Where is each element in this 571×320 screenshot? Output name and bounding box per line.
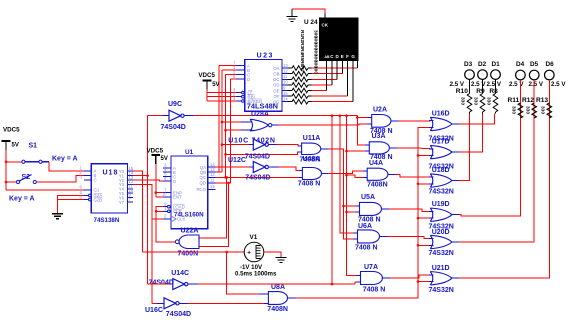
svg-text:U2A: U2A xyxy=(373,106,387,113)
label U7A xyxy=(364,264,378,271)
svg-text:U3A: U3A xyxy=(372,133,386,140)
value -1V 10V xyxy=(240,264,263,271)
svg-text:U18: U18 xyxy=(103,170,119,177)
wire U21D.in2 tap xyxy=(417,280,431,283)
OR gate U20D xyxy=(430,235,452,248)
display pin 3 lead xyxy=(336,61,338,80)
wire U14C out long xyxy=(198,283,356,286)
probe D6 xyxy=(545,70,555,80)
svg-text:D5: D5 xyxy=(530,61,539,68)
node tap2 xyxy=(345,211,348,214)
decoder U23 box xyxy=(245,60,282,112)
label R8 xyxy=(489,88,498,95)
label Key = A (S1) xyxy=(52,156,78,163)
value 74S32N (U21D) xyxy=(429,287,454,294)
wire U28A out to U2A.in2 xyxy=(278,123,372,126)
svg-text:7408 N: 7408 N xyxy=(363,287,386,294)
display pin 1 lead xyxy=(356,61,358,69)
resistor R8 xyxy=(493,79,498,113)
wire R6 to display xyxy=(312,95,348,97)
U21D output stub xyxy=(452,277,459,279)
resistor R10 xyxy=(467,79,472,113)
wire R9 lead red xyxy=(482,114,484,153)
U19D output stub xyxy=(452,214,459,216)
label D5 xyxy=(530,61,539,68)
probe D1 xyxy=(491,70,501,80)
svg-text:R11: R11 xyxy=(508,97,520,104)
wire V4 to LT/RBI/RBO xyxy=(207,90,242,102)
value 74S04D (U14C) xyxy=(149,280,174,287)
value 2.5 V (D1) xyxy=(487,81,502,88)
wire column A U23 xyxy=(219,66,237,173)
svg-text:330: 330 xyxy=(460,97,466,105)
value 7408N overlapped xyxy=(300,156,321,163)
svg-text:G: G xyxy=(351,54,355,59)
ground near U18 xyxy=(52,214,63,219)
value 330 rotated (R12) xyxy=(524,106,530,114)
svg-text:QC: QC xyxy=(200,175,206,180)
U16C output stub xyxy=(179,302,187,304)
node ENP tap xyxy=(155,191,158,194)
value 74S32N (U17D) xyxy=(429,164,454,171)
svg-text:VDC5: VDC5 xyxy=(147,148,164,155)
label S1 xyxy=(29,143,38,150)
wire U12C out to gate2.in1 xyxy=(278,167,302,171)
svg-text:C: C xyxy=(94,178,97,183)
node V1 junction xyxy=(225,251,228,254)
svg-text:14: 14 xyxy=(283,97,288,102)
svg-text:OG: OG xyxy=(273,100,280,105)
label U19D xyxy=(432,201,450,208)
svg-text:11: 11 xyxy=(210,178,215,183)
wire D5 to R12 xyxy=(533,80,535,118)
label U20D xyxy=(432,229,450,236)
svg-text:330: 330 xyxy=(486,97,492,105)
label D4 xyxy=(516,61,525,68)
label D3 xyxy=(464,61,473,68)
wire QC to gate2.in2 xyxy=(216,176,303,178)
wire U9C input xyxy=(148,115,163,117)
U10C input stub xyxy=(249,144,253,146)
display pin 6 lead xyxy=(347,61,349,97)
svg-text:74S32N: 74S32N xyxy=(429,189,454,196)
wire V1 right xyxy=(264,252,281,258)
wire V1 left xyxy=(143,251,245,253)
svg-text:CLK: CLK xyxy=(177,217,185,222)
switch S2 open xyxy=(16,175,36,184)
svg-text:12: 12 xyxy=(210,172,215,177)
value 74S04D (U12C) xyxy=(245,174,270,181)
svg-text:2.5 V: 2.5 V xyxy=(551,81,566,88)
label U10C 7402N xyxy=(228,137,275,144)
node N1 junctions xyxy=(331,114,348,117)
AND gate U2A xyxy=(372,115,391,128)
wire N1 branch x357 to U3A.in1 xyxy=(357,116,369,145)
svg-text:6: 6 xyxy=(80,185,83,190)
label U2A xyxy=(373,106,387,113)
probe D2 xyxy=(478,70,488,80)
wire U24 top xyxy=(292,9,325,14)
wire U8A out big vertical xyxy=(296,127,431,298)
wire R7 to display xyxy=(312,101,354,103)
value 7408 N (U7A) xyxy=(363,287,386,294)
resistor R3 xyxy=(288,77,312,82)
value 2.5 V (D5) xyxy=(529,81,544,88)
counter U1 box xyxy=(171,156,208,229)
svg-text:U1: U1 xyxy=(185,149,194,156)
svg-text:330: 330 xyxy=(540,106,546,114)
svg-text:D: D xyxy=(173,179,176,184)
label R12 xyxy=(522,97,534,104)
wire R4 to display xyxy=(312,84,332,86)
U12C output stub xyxy=(268,166,278,168)
U13A output stub xyxy=(322,173,328,175)
power VDC5 V3 label xyxy=(147,148,164,155)
U14C output stub xyxy=(188,283,198,285)
svg-text:10: 10 xyxy=(162,192,167,197)
display U24 pin CK lead xyxy=(324,14,326,19)
wire G2 enable xyxy=(58,195,87,213)
wire N1 tap U2A.in1 xyxy=(357,117,371,119)
wire U5A.in1 tap xyxy=(342,205,359,208)
wire U22A.in1 vertical xyxy=(199,176,228,238)
display U24 body xyxy=(320,18,359,61)
U7A stubs xyxy=(357,275,391,282)
value 330 rotated (R11) xyxy=(511,106,517,114)
U5A stubs xyxy=(356,206,390,212)
probe D5 xyxy=(529,70,539,80)
power VDC5 V4 label xyxy=(198,72,215,79)
wire N1 branch x332 to U7A.in2 xyxy=(331,116,333,284)
value 7408 N (U2A) xyxy=(370,128,393,135)
label U24 xyxy=(304,19,318,26)
label U18 xyxy=(103,170,119,177)
wire D6 to R13 xyxy=(548,80,550,118)
svg-text:U14C: U14C xyxy=(171,270,189,277)
svg-text:330: 330 xyxy=(511,106,517,114)
U11A output stub xyxy=(321,148,329,150)
AND gate U6A xyxy=(358,230,380,243)
value 0.5ms 1000ms xyxy=(235,270,277,277)
svg-text:U21D: U21D xyxy=(432,265,450,272)
U11A input stubs xyxy=(298,146,302,152)
svg-text:R7: R7 xyxy=(299,66,305,72)
svg-text:D4: D4 xyxy=(516,61,525,68)
value 2.5 V (D3) xyxy=(450,81,465,88)
U20D input stubs xyxy=(429,239,434,246)
resistor R2 xyxy=(288,71,312,76)
value 74S04D (U9C) xyxy=(161,124,186,131)
svg-text:U12C: U12C xyxy=(228,157,246,164)
AND gate U3A xyxy=(369,142,389,154)
svg-text:2: 2 xyxy=(164,214,167,219)
svg-text:13: 13 xyxy=(283,63,288,68)
wire V3 to ENP/ENT xyxy=(156,164,163,197)
wire U17D out to R9 xyxy=(459,114,483,153)
U19D input stubs xyxy=(429,211,434,218)
svg-text:D1: D1 xyxy=(492,61,501,68)
svg-text:U16C: U16C xyxy=(145,307,163,314)
svg-text:U4A: U4A xyxy=(369,160,383,167)
svg-text:BI/RBO: BI/RBO xyxy=(248,99,263,104)
wire QB to column xyxy=(216,171,223,173)
OR gate U19D xyxy=(430,208,452,221)
label U5A xyxy=(361,194,375,201)
wire U18D.in2 tap xyxy=(417,183,431,186)
resistor R9 xyxy=(480,79,485,113)
wire QA to U12C inverter xyxy=(216,166,254,168)
svg-text:9: 9 xyxy=(283,85,286,90)
label U23 xyxy=(257,53,274,60)
U16D output stub xyxy=(452,123,459,125)
label U21D xyxy=(432,265,450,272)
svg-text:R10: R10 xyxy=(456,88,468,95)
svg-text:2.5 V: 2.5 V xyxy=(509,81,524,88)
resistor R4 xyxy=(288,83,312,88)
NOR gate U28A xyxy=(250,119,272,131)
values 300 rotated xyxy=(313,30,319,74)
svg-text:11: 11 xyxy=(283,74,288,79)
label V1 xyxy=(250,234,258,241)
display pin 2 lead xyxy=(341,61,343,74)
OR gate U21D xyxy=(430,272,452,285)
wire N1 branch x340 to U6A.in1 xyxy=(340,116,358,234)
U8A stubs xyxy=(259,294,296,303)
svg-text:E: E xyxy=(341,54,344,59)
wire U16D out to R8 xyxy=(459,114,495,125)
svg-text:300: 300 xyxy=(313,66,319,74)
ground near U24 xyxy=(287,9,298,22)
svg-text:U22A: U22A xyxy=(181,227,199,234)
svg-text:2.5 V: 2.5 V xyxy=(487,81,502,88)
svg-text:74S32N: 74S32N xyxy=(429,250,454,257)
svg-text:7408N: 7408N xyxy=(267,306,288,313)
svg-text:2.5 V: 2.5 V xyxy=(471,81,486,88)
svg-text:S2: S2 xyxy=(22,174,31,181)
wire U18D out to R10 xyxy=(459,114,470,181)
wire V2 down xyxy=(5,150,7,190)
wire U11A.in2 long xyxy=(224,152,301,156)
pulse source V1 xyxy=(244,242,264,262)
label R9 xyxy=(476,88,485,95)
wire QD to column xyxy=(216,182,231,184)
power VDC5 V2 label xyxy=(3,127,20,134)
U18D output stub xyxy=(452,180,459,182)
wire U21D out to R13 xyxy=(459,118,550,278)
display pin 7 lead xyxy=(352,61,354,102)
value 7408 N (U6A) xyxy=(355,244,378,251)
svg-text:OB: OB xyxy=(273,72,279,77)
wire U10C inverter input tap xyxy=(221,143,249,146)
display pin 5 lead xyxy=(326,61,328,91)
OR gate U17D xyxy=(430,145,452,158)
wire CLR tap xyxy=(155,210,163,213)
svg-text:G2B: G2B xyxy=(94,197,103,202)
wire U13A out to U4A.in1 xyxy=(328,171,367,173)
label D2 xyxy=(478,61,487,68)
AND gate U11A xyxy=(302,143,321,154)
inverter U9C xyxy=(169,110,184,121)
svg-text:F: F xyxy=(346,54,349,59)
value 7400N xyxy=(178,250,199,257)
svg-text:U28A: U28A xyxy=(251,111,269,118)
wire U5A out to U19D.in1 xyxy=(389,209,430,212)
wire S2 to U18 pin B xyxy=(37,175,85,182)
value 2.5 V (D2) xyxy=(471,81,486,88)
svg-text:U 24: U 24 xyxy=(304,19,318,26)
AND gate U4A xyxy=(367,168,388,180)
svg-text:R13: R13 xyxy=(536,97,548,104)
wire U14C input xyxy=(148,283,169,285)
U18 left pins xyxy=(80,166,103,203)
value 330 rotated (R9) xyxy=(473,97,479,105)
U28A output stub xyxy=(272,124,278,126)
svg-text:D: D xyxy=(247,77,250,82)
svg-text:12: 12 xyxy=(283,69,288,74)
label R11 xyxy=(508,97,520,104)
wire R1 to display xyxy=(312,67,358,69)
svg-text:QD: QD xyxy=(200,181,206,186)
NAND gate U22A mirrored xyxy=(175,235,199,249)
U12C input stub xyxy=(250,166,253,168)
svg-text:7408N: 7408N xyxy=(367,182,388,189)
label U12C xyxy=(228,157,246,164)
power source V4 5V symbol xyxy=(203,81,220,90)
value 7408N (U4A) xyxy=(367,182,388,189)
U1 right pins xyxy=(196,162,215,192)
wire Y0 to V1 net xyxy=(133,171,143,252)
value 74S32N (U18D) xyxy=(429,189,454,196)
inverter U10C xyxy=(253,139,268,150)
svg-text:U6A: U6A xyxy=(358,223,372,230)
resistor R12 xyxy=(532,103,537,118)
inverter U12C xyxy=(253,162,268,173)
OR gate U18D xyxy=(430,174,452,187)
wire N1 tap U5A.in2 xyxy=(347,211,360,213)
wire U2A out to U16D.in1 xyxy=(399,120,431,122)
label U4A xyxy=(369,160,383,167)
svg-text:U7A: U7A xyxy=(364,264,378,271)
display U24 pin labels xyxy=(325,54,356,59)
wire U4A out to U18D.in1 xyxy=(396,174,431,177)
wire U16C input xyxy=(152,302,157,304)
node tap xyxy=(345,150,348,153)
label R10 xyxy=(456,88,468,95)
wire U20D.in2 tap xyxy=(417,244,431,247)
decoder U18 box xyxy=(91,164,127,213)
U4A stubs xyxy=(363,171,396,177)
value 74LS160N xyxy=(174,211,204,218)
svg-text:74S138N: 74S138N xyxy=(94,217,120,224)
label U1 xyxy=(185,149,194,156)
value 74S04D (U10C) xyxy=(245,153,270,160)
wire U28A.in2 tap xyxy=(224,129,241,132)
wire Y2 to U1.D xyxy=(133,180,163,181)
resistor R7 xyxy=(288,99,312,104)
wire N1 branch x346 to U7A.in1 xyxy=(347,116,361,276)
label U16C xyxy=(145,307,163,314)
svg-text:10: 10 xyxy=(283,80,288,85)
svg-text:U10C 7402N: U10C 7402N xyxy=(228,137,275,144)
node junction S2 tap xyxy=(5,181,8,184)
wire to S2 xyxy=(6,181,16,183)
svg-text:U8A: U8A xyxy=(271,284,285,291)
label U17D xyxy=(432,139,450,146)
svg-text:CLR: CLR xyxy=(173,209,182,214)
svg-text:5V: 5V xyxy=(161,156,168,162)
svg-text:ENT: ENT xyxy=(173,195,182,200)
wire U10C out to U11A.in1 xyxy=(277,145,302,146)
U2A stubs xyxy=(368,118,399,125)
label S2 xyxy=(22,174,31,181)
U21D input stubs xyxy=(429,275,434,282)
OR gate U16D xyxy=(430,117,452,130)
resistor R11 xyxy=(518,103,523,118)
probe D3 xyxy=(465,70,475,80)
inverter U16C xyxy=(164,298,179,309)
U20D output stub xyxy=(452,241,459,243)
svg-text:74S32N: 74S32N xyxy=(429,287,454,294)
AND gate U7A xyxy=(361,272,383,285)
svg-text:2.5 V: 2.5 V xyxy=(529,81,544,88)
value 7408N (U8A) xyxy=(267,306,288,313)
svg-text:5V: 5V xyxy=(12,143,19,149)
switch S1 xyxy=(22,160,49,163)
wire U16C out to U8A.in2 xyxy=(188,302,265,304)
svg-text:OD: OD xyxy=(273,83,279,88)
svg-text:D2: D2 xyxy=(478,61,487,68)
label U9C xyxy=(168,101,182,108)
svg-text:U17D: U17D xyxy=(432,139,450,146)
U23 right pins xyxy=(273,63,289,105)
wire R10 lead red xyxy=(469,114,471,181)
U16D input stubs xyxy=(429,121,434,128)
wire column C U23 xyxy=(224,75,236,179)
svg-text:R12: R12 xyxy=(522,97,534,104)
resistor R6 xyxy=(288,94,312,99)
svg-text:15: 15 xyxy=(283,91,288,96)
wire D4 to R11 xyxy=(519,80,521,118)
svg-text:OF: OF xyxy=(274,94,280,99)
label U11A xyxy=(303,135,321,142)
svg-text:U20D: U20D xyxy=(432,229,450,236)
svg-text:AB: AB xyxy=(325,55,330,59)
svg-text:U19D: U19D xyxy=(432,201,450,208)
resistor R5 xyxy=(288,88,312,93)
svg-text:D3: D3 xyxy=(464,61,473,68)
U28A input stubs xyxy=(241,122,252,130)
label U18D xyxy=(432,167,450,174)
svg-text:G1: G1 xyxy=(94,188,100,193)
node Y1 junction xyxy=(146,174,149,177)
value 7408 N (U5A) xyxy=(358,217,381,224)
value 2.5 V (D6) xyxy=(551,81,566,88)
svg-text:+: + xyxy=(247,250,251,257)
inverter U14C xyxy=(173,279,188,290)
wire R3 to display xyxy=(312,78,338,80)
wire U7A out to U21D.in1 xyxy=(390,275,430,278)
display U24 CK text xyxy=(322,22,329,27)
U18D input stubs xyxy=(429,177,434,184)
value 7408 N (U13A) xyxy=(298,180,321,187)
U14C input stub xyxy=(169,283,173,285)
resistor R1 xyxy=(288,66,312,71)
svg-text:13: 13 xyxy=(210,167,215,172)
svg-text:U48A: U48A xyxy=(303,156,321,163)
U10C output stub xyxy=(268,144,276,146)
value 74S04D (U16C) xyxy=(166,311,191,318)
svg-text:74S04D: 74S04D xyxy=(161,124,186,131)
